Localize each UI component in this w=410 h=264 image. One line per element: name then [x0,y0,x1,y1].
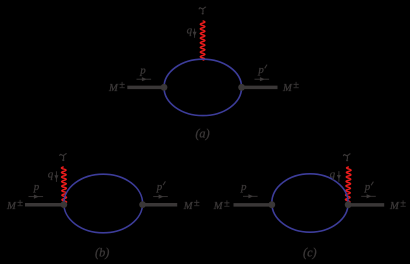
svg-text:p: p [257,64,264,76]
svg-text:±: ± [17,198,23,209]
svg-text:p: p [364,181,371,193]
svg-text:M: M [389,201,400,212]
svg-text:±: ± [400,199,406,210]
svg-text:q: q [330,169,336,181]
svg-text:(b): (b) [95,246,109,260]
svg-text:±: ± [224,199,230,210]
svg-text:M: M [183,201,194,212]
svg-text:(a): (a) [195,127,209,141]
svg-text:±: ± [293,80,299,91]
svg-text:p: p [139,64,146,76]
svg-text:p: p [156,181,163,193]
svg-text:M: M [213,201,224,212]
svg-text:±: ± [119,80,125,91]
svg-text:q: q [187,24,193,36]
svg-text:M: M [108,83,119,94]
svg-text:M: M [282,83,293,94]
svg-text:±: ± [194,198,200,209]
svg-text:M: M [6,201,17,212]
svg-text:(c): (c) [303,246,317,260]
svg-text:p: p [33,181,40,193]
svg-text:q: q [48,169,54,181]
svg-text:p: p [240,181,247,193]
